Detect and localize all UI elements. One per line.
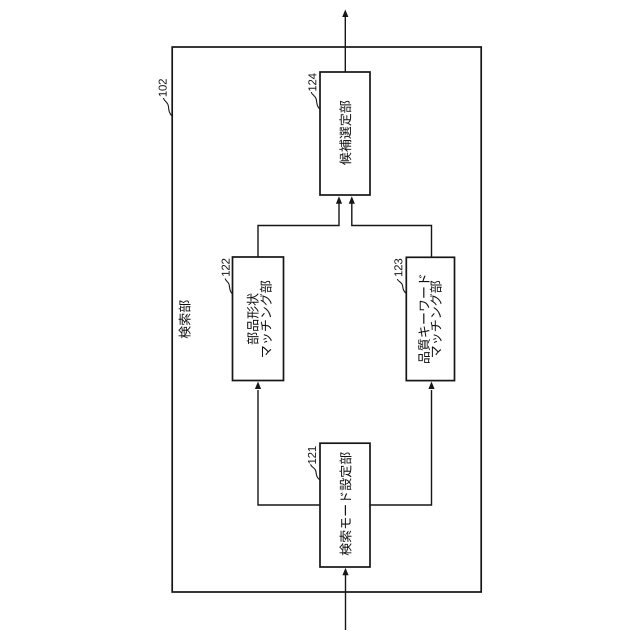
text 検索部 (outer block label): [179, 300, 191, 338]
text 検索モード設定部 (box 121): [340, 452, 352, 555]
wire: box 121 right side to box 123: [370, 390, 432, 505]
arrowhead: into box 123 bottom: [428, 382, 434, 390]
arrowhead: into box 122 bottom: [255, 382, 261, 390]
wire: external input through bottom edge of 102 into box 121: [345, 574, 347, 630]
arrowhead: output arrow at top of figure: [342, 10, 348, 18]
box 123 品質キーワードマッチング部: [406, 257, 454, 380]
leader squiggle for label 102: [164, 98, 173, 116]
text マッチング部 (box 123 line 2): [430, 281, 442, 357]
leader squiggle for label 121: [311, 464, 320, 480]
label 123: [394, 259, 402, 276]
text 品質キーワード (box 123 line 1): [418, 275, 430, 363]
label 122: [222, 259, 230, 276]
wire: output from box 124 through top edge of 102: [344, 16, 346, 72]
wire: box 123 top to box 124 bottom: [352, 203, 432, 257]
arrowhead: into box 124 bottom right: [349, 196, 355, 204]
box 121 検索モード設定部: [320, 443, 370, 567]
wire: box 122 top to box 124 bottom: [258, 203, 339, 257]
label 121: [308, 446, 316, 463]
label 102: [159, 79, 167, 96]
box 124 候補選定部: [320, 72, 370, 195]
label 124: [308, 73, 316, 91]
text 部品形状 (box 122 line 1): [247, 293, 259, 344]
box 122 部品形状マッチング部: [233, 257, 284, 381]
leader squiggle for label 123: [397, 279, 406, 294]
outer block: 検索部 (unit 102): [172, 47, 481, 592]
leader squiggle for label 122: [225, 279, 232, 295]
text マッチング部 (box 122 line 2): [260, 281, 272, 357]
text 候補選定部 (box 124): [339, 101, 351, 165]
arrowhead: input into box 121 bottom: [342, 568, 348, 576]
wire: box 121 left side to box 122: [258, 390, 320, 505]
leader squiggle for label 124: [311, 92, 320, 110]
arrowhead: into box 124 bottom left: [336, 196, 342, 204]
